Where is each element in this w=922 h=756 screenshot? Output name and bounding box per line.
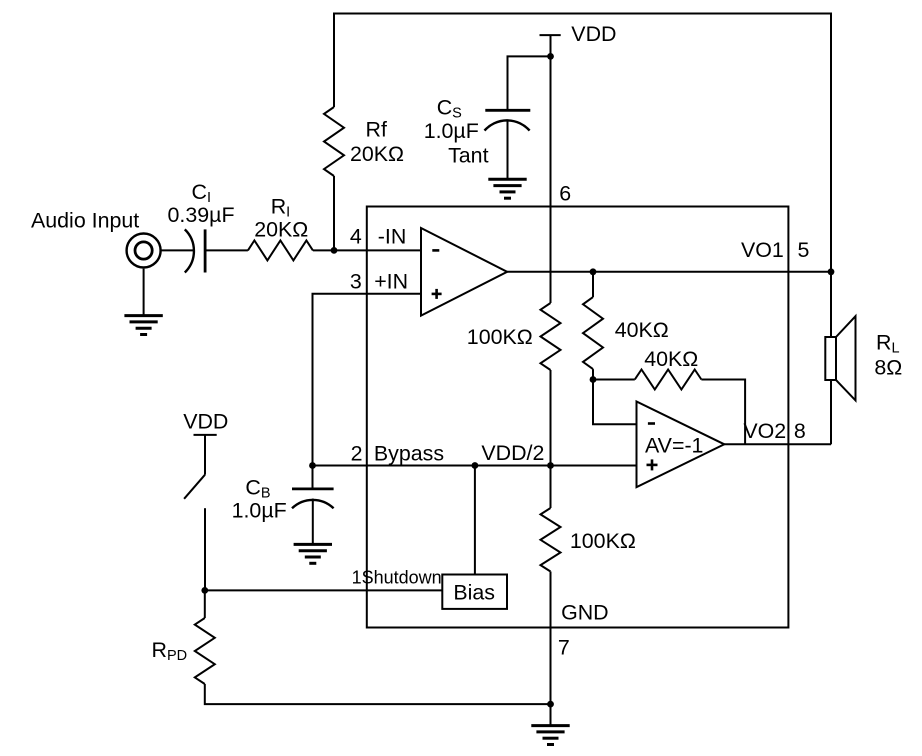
label CB — [245, 476, 270, 502]
label 100K lower — [570, 529, 636, 553]
svg-text:7: 7 — [558, 636, 570, 660]
wire feedback loop top — [334, 14, 831, 272]
label RI value 20Kohm — [254, 218, 308, 242]
wire node B to 40K horizontal — [593, 379, 635, 381]
power VDD (top) tick — [540, 34, 561, 36]
label CI value 0.39uF — [168, 203, 235, 227]
wire pin 3 to bypass node — [313, 294, 422, 466]
pin 6 label — [559, 182, 571, 206]
op-amp A1 plus sign — [432, 289, 442, 299]
svg-text:AV=-1: AV=-1 — [645, 434, 703, 458]
svg-text:Rf: Rf — [366, 118, 387, 142]
label CB value 1.0uF — [232, 499, 287, 523]
junction dot VDD-CS — [547, 53, 554, 60]
op-amp A1 — [421, 228, 507, 316]
junction dot VO1-40K — [590, 268, 597, 275]
pin 8 label — [794, 419, 806, 443]
svg-text:Audio Input: Audio Input — [31, 209, 139, 233]
svg-text:VO1: VO1 — [741, 238, 784, 262]
op-amp A2 — [637, 402, 725, 488]
svg-text:1Shutdown: 1Shutdown — [352, 568, 442, 588]
wire VDD to pin 6 — [550, 35, 552, 206]
svg-text:3: 3 — [350, 269, 362, 293]
switch S1 blade — [184, 475, 205, 499]
svg-text:GND: GND — [561, 601, 609, 625]
label VO2 — [743, 419, 786, 443]
label RL — [876, 330, 900, 356]
svg-text:6: 6 — [559, 182, 571, 206]
label Rf — [366, 118, 387, 142]
wire VO1 to 40K vertical — [592, 272, 594, 297]
junction dot VO1-speaker — [828, 268, 835, 275]
label CS Tant — [448, 144, 488, 168]
svg-text:8: 8 — [794, 419, 806, 443]
junction dot VDD/2 — [547, 462, 554, 469]
resistor Rf — [324, 107, 344, 176]
ground (main) — [531, 726, 569, 745]
Bias box — [442, 575, 507, 609]
svg-text:4: 4 — [350, 224, 362, 248]
ground (input jack) — [124, 316, 162, 335]
wire node A up to Rf — [333, 176, 335, 250]
IC U1 boundary box — [367, 207, 789, 628]
connector J1 audio input jack — [127, 234, 161, 268]
svg-text:+IN: +IN — [374, 269, 408, 293]
wire VO1 node to speaker — [830, 272, 832, 337]
ground (CB) — [294, 544, 332, 563]
pin 7 label — [558, 636, 570, 660]
label VDD (switch) — [183, 410, 228, 434]
resistor RI — [248, 240, 313, 260]
capacitor CB — [292, 489, 334, 508]
pin name Bypass — [374, 442, 444, 466]
svg-text:20KΩ: 20KΩ — [350, 142, 404, 166]
label AV=-1 — [645, 434, 703, 458]
label 100K upper — [467, 325, 533, 349]
op-amp A1 minus sign — [432, 249, 439, 252]
wire shutdown line — [205, 589, 442, 591]
svg-text:100KΩ: 100KΩ — [570, 529, 636, 553]
label VO1 — [741, 238, 784, 262]
wire 40K vertical to node B — [592, 369, 594, 379]
label Rf value 20Kohm — [350, 142, 404, 166]
junction dot shutdown — [201, 587, 208, 594]
svg-text:40KΩ: 40KΩ — [644, 347, 698, 371]
svg-text:40KΩ: 40KΩ — [615, 318, 669, 342]
pin 4 label — [350, 224, 362, 248]
wire bypass line — [313, 465, 637, 467]
wire 100K upper to VDD/2 — [550, 370, 552, 508]
wire speaker to VO2 — [830, 380, 832, 444]
junction node A — [331, 247, 338, 254]
wire jack to CI — [161, 249, 194, 251]
svg-text:1.0µF: 1.0µF — [232, 499, 287, 523]
op-amp A2 plus sign — [647, 459, 658, 470]
svg-text:VDD/2: VDD/2 — [481, 441, 544, 465]
label Bias — [453, 580, 495, 604]
svg-text:1.0µF: 1.0µF — [424, 119, 479, 143]
svg-text:VDD: VDD — [183, 410, 228, 434]
label VDD (top) — [571, 22, 616, 46]
wire jack to ground — [143, 269, 145, 316]
wire VO2 output — [724, 443, 831, 445]
resistor RPD — [195, 618, 215, 684]
wire VO1 output — [507, 271, 831, 273]
label VDD/2 — [481, 441, 544, 465]
resistor 40K horizontal — [635, 370, 702, 390]
svg-text:Bypass: Bypass — [374, 442, 444, 466]
svg-text:100KΩ: 100KΩ — [467, 325, 533, 349]
wire VDD tick to switch — [204, 435, 206, 475]
svg-text:-IN: -IN — [378, 224, 407, 248]
label RPD — [152, 638, 188, 664]
wire CB to ground — [312, 499, 314, 545]
label CS value 1.0uF — [424, 119, 479, 143]
pin 5 label — [798, 238, 810, 262]
label GND — [561, 601, 609, 625]
svg-text:VDD: VDD — [571, 22, 616, 46]
label RI — [271, 195, 290, 221]
wire shutdown node to RPD — [204, 590, 206, 618]
power VDD (switch) tick — [194, 434, 217, 436]
junction dot bypass-bias — [472, 462, 479, 469]
ground (CS) — [488, 179, 526, 198]
wire node B to A2 inverting input — [593, 380, 637, 425]
pin name +IN — [374, 269, 408, 293]
resistor 100K upper — [541, 303, 561, 370]
resistor 100K lower — [541, 508, 561, 572]
capacitor CI — [185, 229, 205, 272]
pin 2 label — [351, 442, 363, 466]
label 40K vertical — [615, 318, 669, 342]
capacitor CS — [485, 110, 531, 130]
svg-text:8Ω: 8Ω — [874, 356, 902, 380]
op-amp A2 minus sign — [648, 422, 655, 425]
junction dot bypass-CB — [309, 462, 316, 469]
wire bypass to CB — [312, 466, 314, 489]
label CI — [192, 180, 211, 206]
wire CI to RI — [205, 249, 248, 251]
svg-text:Tant: Tant — [448, 144, 488, 168]
resistor 40K vertical — [583, 297, 603, 369]
wire 100K lower to ground — [550, 572, 552, 726]
wire VDD/2 to Bias box — [474, 466, 476, 575]
svg-text:0.39µF: 0.39µF — [168, 203, 235, 227]
label RL value 8ohm — [874, 356, 902, 380]
svg-text:Bias: Bias — [453, 580, 495, 604]
wire switch to shutdown node — [204, 508, 206, 590]
junction dot bottom rail — [547, 701, 554, 708]
speaker RL — [825, 316, 855, 400]
wire CS to ground — [507, 121, 509, 180]
pin 3 label — [350, 269, 362, 293]
junction node B — [590, 376, 597, 383]
svg-text:VO2: VO2 — [743, 419, 786, 443]
wire 40K horizontal to VO2 — [701, 380, 745, 445]
wire RI to node A and pin 4 — [313, 249, 421, 251]
label CS — [437, 96, 462, 122]
svg-text:20KΩ: 20KΩ — [254, 218, 308, 242]
wire pin6 into IC — [550, 207, 552, 304]
pin name -IN — [378, 224, 407, 248]
wire CS to VDD — [508, 56, 551, 110]
wire RPD to bottom rail — [205, 684, 551, 704]
pin 1 label and name Shutdown — [352, 568, 442, 588]
svg-text:2: 2 — [351, 442, 363, 466]
svg-text:5: 5 — [798, 238, 810, 262]
label 40K horizontal — [644, 347, 698, 371]
label Audio Input — [31, 209, 139, 233]
